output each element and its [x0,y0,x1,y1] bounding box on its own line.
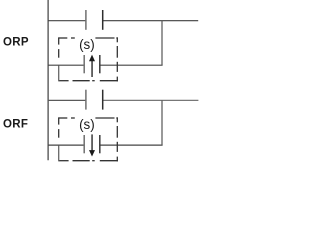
dashed box (ORF) bottom edge [59,160,118,162]
wire: ORP rung 1 right segment [103,20,199,22]
contact (top, ORP) left bar [85,10,87,30]
contact (top, ORP) right bar [102,10,104,30]
dashed box (ORP step marker) top edge [59,37,118,39]
dashed box (ORF step marker) top edge [59,117,118,119]
svg-text:(s): (s) [79,37,95,52]
wire: ORP rung 2 left segment [48,64,84,66]
svg-text:(s): (s) [79,117,95,132]
svg-text:ORF: ORF [3,119,28,131]
contact (top, ORF) right bar [102,90,104,110]
wire: ORF rung 2 left segment [48,144,84,146]
contact (edge, ORF) right bar [99,135,101,153]
dashed box (ORP) left edge [58,37,60,81]
wire: ORP OR-branch vertical [161,21,163,65]
dashed box (ORP) right edge [116,37,118,81]
wire: ORF rung 1 right segment [103,99,199,101]
contact (edge, ORF) left bar [83,135,85,153]
wire: ORF rung 1 left segment [48,99,86,101]
wire: ORF rung 2 right segment [100,144,163,146]
contact (edge, ORP) right bar [99,55,101,73]
contact (top, ORF) left bar [85,90,87,110]
wire: ORP rung 2 right segment [100,64,163,66]
dashed box (ORF) left edge [58,117,60,161]
wire: ORF OR-branch vertical [161,100,163,145]
dashed box (ORF) right edge [116,117,118,161]
falling-edge arrow (ORF) [89,134,95,156]
left power rail [47,0,49,160]
contact (edge, ORP) left bar [83,55,85,73]
dashed box (ORP) bottom edge [59,80,118,82]
rising-edge arrow (ORP) [89,55,95,77]
svg-text:ORP: ORP [3,37,29,49]
wire: ORP rung 1 left segment [48,20,86,22]
